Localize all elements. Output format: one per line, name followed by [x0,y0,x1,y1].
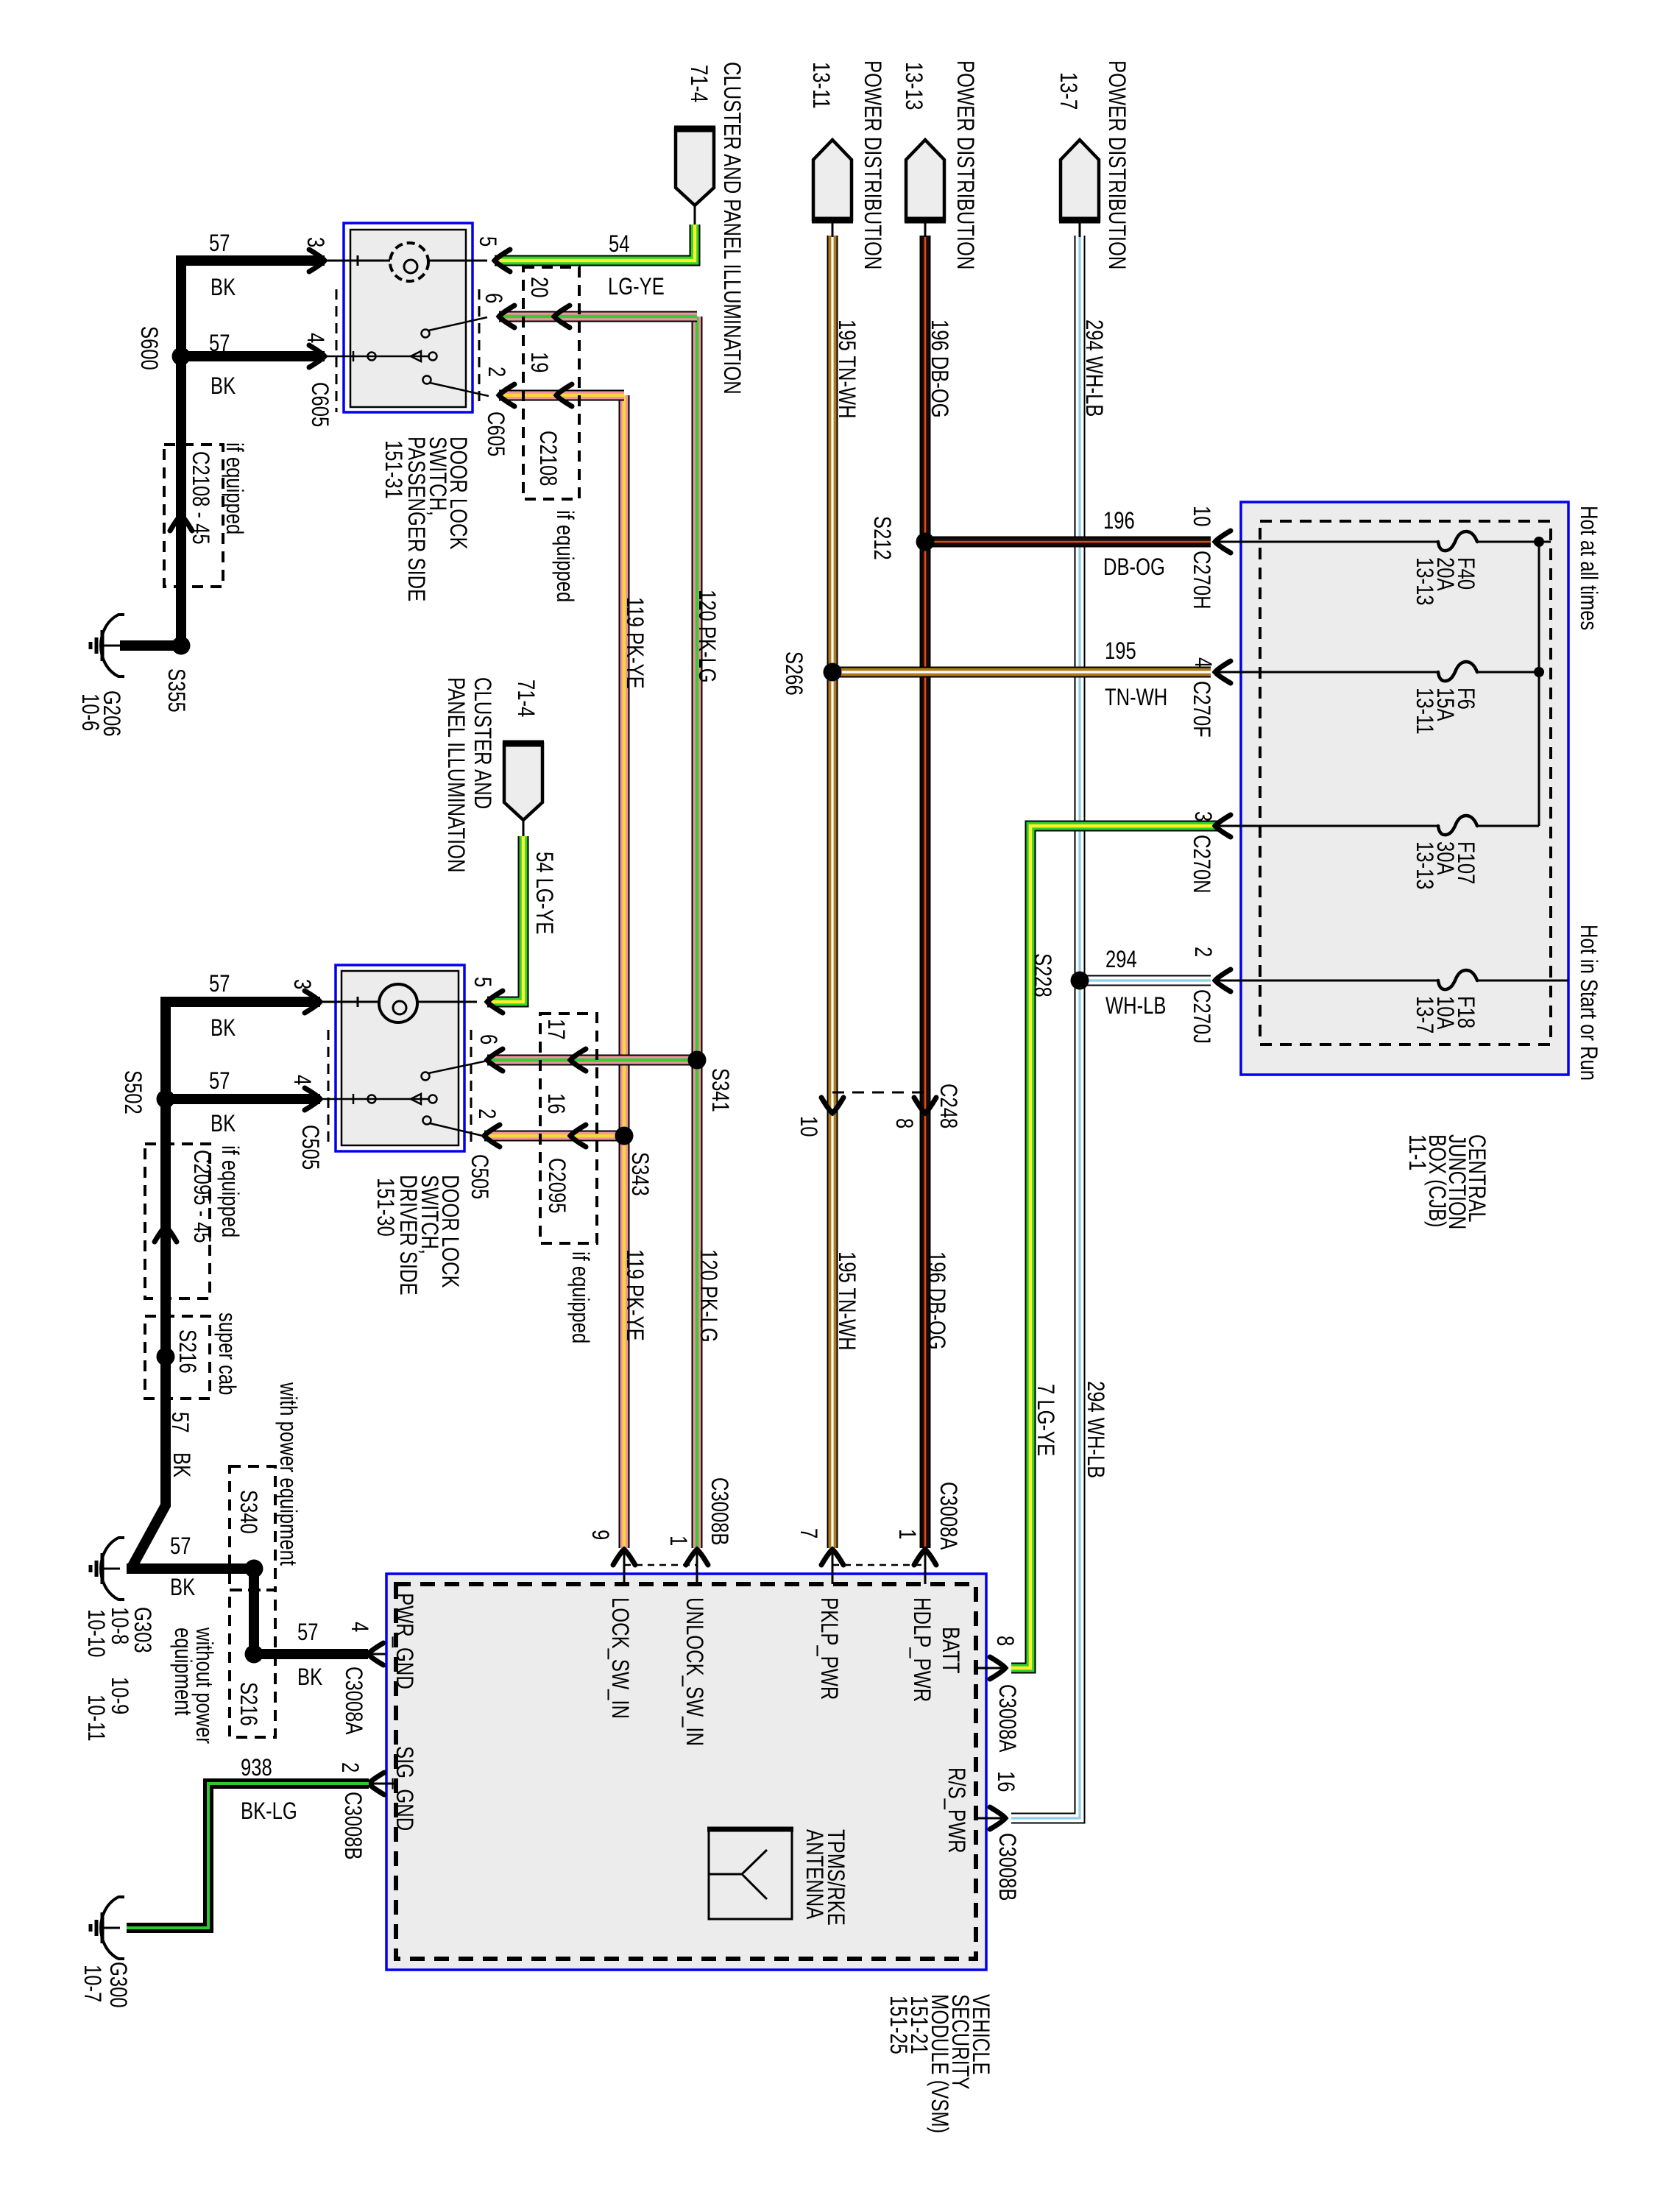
svg-text:2: 2 [483,367,509,377]
svg-text:LOCK_SW_IN: LOCK_SW_IN [606,1597,632,1719]
svg-text:equipment: equipment [169,1628,195,1716]
svg-text:54 LG-YE: 54 LG-YE [531,852,556,934]
svg-text:119 PK-YE: 119 PK-YE [621,597,647,689]
svg-text:C3008B: C3008B [339,1792,365,1859]
svg-text:POWER DISTRIBUTION: POWER DISTRIBUTION [1103,60,1129,269]
svg-text:196: 196 [1103,508,1135,534]
svg-text:20: 20 [526,277,551,297]
svg-text:POWER DISTRIBUTION: POWER DISTRIBUTION [952,60,977,269]
svg-text:10-11: 10-11 [82,1695,108,1742]
svg-text:17: 17 [542,1019,568,1039]
svg-text:5: 5 [469,977,495,987]
svg-text:13-13: 13-13 [900,62,926,110]
svg-text:151-31: 151-31 [380,440,406,499]
svg-text:BK-LG: BK-LG [241,1798,297,1824]
svg-text:C605: C605 [306,382,332,427]
svg-text:S341: S341 [707,1068,732,1112]
svg-text:195: 195 [1105,638,1136,664]
svg-text:10: 10 [795,1116,821,1137]
svg-text:294: 294 [1105,947,1137,972]
svg-text:4: 4 [1189,657,1215,668]
svg-text:C270H: C270H [1188,551,1214,609]
svg-text:C505: C505 [297,1125,322,1170]
svg-text:TN-WH: TN-WH [1105,685,1167,710]
svg-text:196 DB-OG: 196 DB-OG [926,319,952,418]
svg-text:C2095 - 45: C2095 - 45 [188,1150,214,1243]
svg-text:with power equipment: with power equipment [275,1382,300,1566]
svg-text:938: 938 [241,1755,272,1781]
svg-text:C248: C248 [935,1084,960,1128]
svg-text:C3008A: C3008A [340,1667,366,1735]
svg-text:C2108 - 45: C2108 - 45 [187,451,213,545]
svg-text:57: 57 [209,331,230,356]
svg-text:57: 57 [297,1619,318,1645]
svg-text:13-7: 13-7 [1411,996,1437,1033]
svg-text:BK: BK [210,1111,236,1137]
svg-text:119 PK-YE: 119 PK-YE [621,1249,647,1341]
svg-text:HDLP_PWR: HDLP_PWR [908,1597,934,1702]
svg-text:16: 16 [542,1093,568,1114]
svg-text:10-7: 10-7 [79,1965,105,2002]
svg-text:DB-OG: DB-OG [1103,554,1165,580]
svg-text:S340: S340 [235,1490,261,1534]
svg-text:BK: BK [210,373,236,399]
svg-text:BK: BK [210,275,236,300]
svg-text:CLUSTER AND PANEL ILLUMINATION: CLUSTER AND PANEL ILLUMINATION [718,62,744,395]
svg-text:54: 54 [609,231,629,257]
svg-text:13-11: 13-11 [807,62,833,109]
svg-text:7: 7 [795,1528,821,1538]
svg-text:6: 6 [475,1034,500,1045]
svg-text:2: 2 [473,1109,499,1119]
svg-text:4: 4 [302,333,328,343]
svg-text:if equipped: if equipped [216,1145,242,1237]
svg-text:C505: C505 [466,1154,492,1199]
svg-text:BATT: BATT [937,1627,963,1674]
svg-text:151-25: 151-25 [885,1996,910,2054]
svg-text:C3008B: C3008B [706,1477,732,1545]
svg-text:S216: S216 [174,1329,199,1374]
svg-text:120 PK-LG: 120 PK-LG [693,590,719,683]
svg-text:2: 2 [1189,947,1215,957]
svg-text:6: 6 [480,293,506,303]
svg-text:S266: S266 [780,651,806,696]
svg-text:CLUSTER AND: CLUSTER AND [469,677,495,809]
svg-text:if equipped: if equipped [567,1251,592,1343]
svg-text:13-13: 13-13 [1411,557,1437,605]
svg-text:57: 57 [209,971,230,997]
svg-text:3: 3 [1189,811,1215,821]
svg-text:4: 4 [346,1622,372,1632]
svg-text:2: 2 [336,1762,362,1773]
svg-text:S228: S228 [1029,953,1055,997]
svg-text:if equipped: if equipped [221,442,247,534]
svg-text:4: 4 [289,1075,314,1085]
svg-text:120 PK-LG: 120 PK-LG [695,1249,721,1343]
svg-text:C3008A: C3008A [935,1482,960,1550]
svg-text:S343: S343 [626,1152,652,1196]
svg-text:8: 8 [891,1118,916,1128]
svg-text:1: 1 [894,1529,919,1539]
svg-text:PANEL ILLUMINATION: PANEL ILLUMINATION [442,677,468,872]
svg-text:10-10: 10-10 [82,1609,108,1657]
svg-text:S502: S502 [119,1070,145,1114]
svg-text:57: 57 [170,1533,191,1559]
svg-text:13-11: 13-11 [1411,688,1437,735]
svg-text:196 DB-OG: 196 DB-OG [923,1251,949,1350]
svg-text:3: 3 [302,237,328,247]
svg-text:195 TN-WH: 195 TN-WH [833,319,859,419]
svg-text:BK: BK [297,1664,322,1690]
svg-text:if equipped: if equipped [551,510,577,602]
svg-text:71-4: 71-4 [512,679,538,717]
svg-text:57: 57 [209,230,230,256]
svg-text:BK: BK [170,1575,195,1600]
svg-text:C2108: C2108 [534,431,560,486]
svg-text:5: 5 [474,236,500,247]
svg-text:C605: C605 [482,411,508,456]
svg-text:C2095: C2095 [543,1158,569,1213]
svg-text:294 WH-LB: 294 WH-LB [1080,319,1106,417]
svg-text:S355: S355 [163,668,188,713]
svg-text:C270F: C270F [1188,681,1214,738]
svg-text:UNLOCK_SW_IN: UNLOCK_SW_IN [681,1597,707,1746]
svg-text:super cab: super cab [213,1312,239,1395]
svg-text:S212: S212 [868,516,894,560]
svg-text:C3008A: C3008A [994,1684,1019,1753]
svg-text:71-4: 71-4 [685,65,711,102]
svg-text:8: 8 [991,1636,1017,1646]
svg-text:16: 16 [992,1771,1018,1792]
svg-text:BK: BK [168,1452,194,1477]
svg-text:SIG_GND: SIG_GND [391,1746,417,1831]
svg-text:BK: BK [210,1015,236,1041]
svg-text:R/S_PWR: R/S_PWR [943,1767,969,1854]
svg-text:1: 1 [665,1536,690,1546]
svg-text:POWER DISTRIBUTION: POWER DISTRIBUTION [859,60,885,269]
svg-text:151-30: 151-30 [372,1178,397,1237]
svg-text:WH-LB: WH-LB [1105,993,1166,1019]
svg-text:3: 3 [289,979,314,989]
svg-text:S216: S216 [235,1682,261,1726]
svg-text:195 TN-WH: 195 TN-WH [833,1251,859,1351]
svg-text:11-1: 11-1 [1404,1134,1429,1170]
svg-text:57: 57 [209,1068,230,1094]
svg-text:13-13: 13-13 [1411,841,1437,889]
svg-text:13-7: 13-7 [1055,72,1080,110]
svg-text:LG-YE: LG-YE [608,274,665,300]
svg-text:294 WH-LB: 294 WH-LB [1082,1381,1108,1478]
svg-text:19: 19 [526,352,551,372]
svg-text:C3008B: C3008B [994,1833,1019,1901]
svg-text:S600: S600 [135,326,161,370]
svg-text:ANTENNA: ANTENNA [801,1829,827,1920]
svg-text:10-9: 10-9 [106,1677,132,1714]
svg-text:PWR_GND: PWR_GND [391,1593,417,1689]
svg-text:C270N: C270N [1188,835,1214,894]
svg-text:7 LG-YE: 7 LG-YE [1032,1384,1058,1456]
svg-text:9: 9 [587,1530,612,1540]
svg-text:10-6: 10-6 [77,693,102,731]
svg-text:PKLP_PWR: PKLP_PWR [815,1597,841,1700]
svg-text:G300: G300 [105,1962,130,2008]
svg-text:10-8: 10-8 [106,1607,132,1644]
svg-text:C270J: C270J [1188,989,1214,1044]
svg-text:57: 57 [166,1412,192,1432]
svg-text:Hot in Start or Run: Hot in Start or Run [1575,925,1601,1081]
svg-text:10: 10 [1188,506,1214,526]
svg-text:Hot at all times: Hot at all times [1575,506,1601,630]
